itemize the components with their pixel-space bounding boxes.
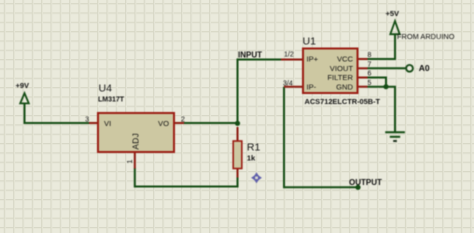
svg-text:+5V: +5V [386,9,400,18]
svg-text:3: 3 [85,117,89,124]
svg-text:R1: R1 [247,142,261,154]
svg-text:VCC: VCC [337,55,354,64]
svg-text:1/2: 1/2 [284,52,294,59]
svg-text:U1: U1 [303,35,317,47]
svg-text:A0: A0 [419,63,430,73]
svg-text:5: 5 [368,80,372,87]
svg-text:1k: 1k [247,154,256,163]
svg-text:3/4: 3/4 [283,80,293,87]
svg-text:VO: VO [158,119,169,128]
svg-text:VIOUT: VIOUT [330,64,354,73]
svg-text:GND: GND [336,82,353,91]
svg-text:IP+: IP+ [307,55,319,64]
svg-text:U4: U4 [99,83,113,95]
svg-text:INPUT: INPUT [238,50,262,59]
svg-text:2: 2 [181,117,185,124]
svg-text:OUTPUT: OUTPUT [349,178,382,187]
svg-text:IP-: IP- [307,82,317,91]
svg-text:+9V: +9V [16,81,30,90]
svg-text:ACS712ELCTR-05B-T: ACS712ELCTR-05B-T [305,97,381,106]
svg-text:ADJ: ADJ [131,133,141,150]
svg-text:VI: VI [104,119,111,128]
svg-text:FILTER: FILTER [327,73,353,82]
svg-text:1: 1 [125,159,134,163]
svg-text:6: 6 [368,71,372,78]
svg-text:8: 8 [368,52,372,59]
svg-text:FROM ARDUINO: FROM ARDUINO [397,32,455,41]
svg-text:7: 7 [368,62,372,69]
svg-text:LM317T: LM317T [98,97,125,104]
